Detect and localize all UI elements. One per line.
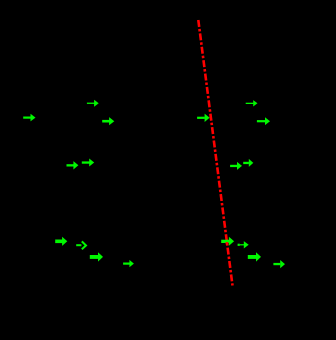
arrow A: [23, 114, 35, 122]
arrow N: [248, 252, 261, 261]
arrow D1: [67, 161, 79, 169]
arrow E1: [55, 237, 67, 246]
arrow C: [102, 117, 114, 125]
arrow B: [87, 100, 99, 107]
red dash-dot line: [198, 20, 232, 286]
arrow E2: [76, 241, 86, 249]
arrow F: [90, 252, 103, 261]
arrow K1: [230, 162, 242, 170]
arrow L: [221, 237, 234, 246]
arrow G: [123, 260, 134, 267]
arrow M: [238, 241, 249, 248]
arrow J: [257, 117, 270, 125]
arrow K2: [243, 159, 253, 167]
arrow I: [246, 100, 258, 106]
arrow O: [273, 260, 285, 268]
red dash overlapping arrow L tail: [226, 242, 229, 244]
arrow D2: [82, 159, 94, 167]
arrow H: [197, 114, 210, 122]
